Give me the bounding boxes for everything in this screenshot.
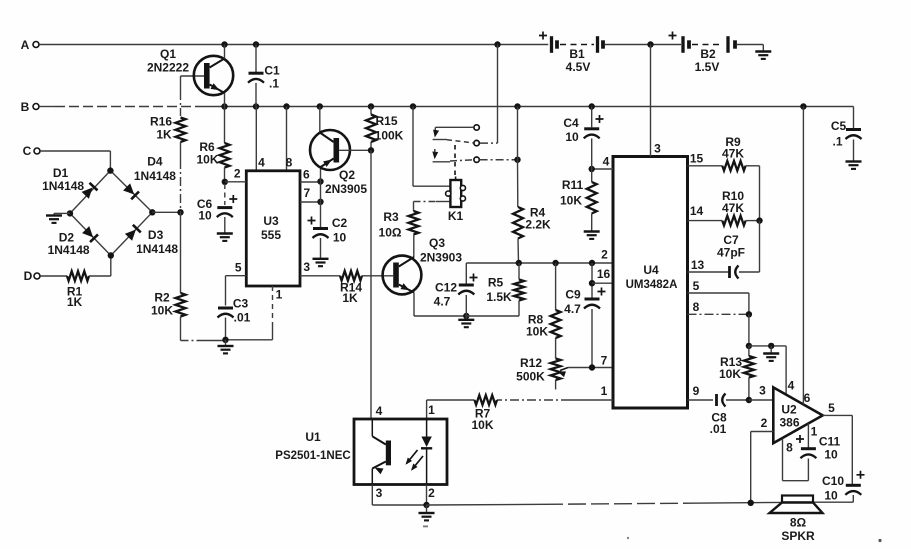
wire relay common to A-line <box>480 45 498 144</box>
svg-text:2: 2 <box>234 167 241 181</box>
wire relay arm 1 <box>433 127 474 137</box>
svg-text:3: 3 <box>303 260 310 274</box>
pin 4 label (U4) <box>603 155 610 169</box>
svg-text:C3: C3 <box>233 297 249 311</box>
transistor Q2 2N3905 <box>310 130 367 196</box>
svg-text:D4: D4 <box>147 155 163 169</box>
node pin7 junction <box>317 199 323 205</box>
pin 1 label (U4) <box>601 384 608 398</box>
pin 1 label (U2) <box>811 425 818 439</box>
node U4 pin16 junction <box>589 280 595 286</box>
ground (C2) <box>313 259 329 266</box>
capacitor C5 .1 <box>831 107 862 162</box>
node bridge top <box>107 167 113 173</box>
svg-text:7: 7 <box>601 354 608 368</box>
svg-text:.1: .1 <box>832 135 842 149</box>
wire U4 pin8 <box>688 313 749 315</box>
wire bridge bottom-left arm <box>70 213 111 255</box>
wire bridge top-right arm <box>110 171 152 213</box>
pin 3 label (U4) <box>654 142 661 156</box>
node R9/R10/C7 junction <box>756 217 762 223</box>
svg-text:14: 14 <box>690 204 704 218</box>
wire Q1 collector to A-line <box>224 45 226 59</box>
pin 2 label (U4) <box>601 248 608 262</box>
wire Q3 emitter down <box>414 293 466 317</box>
svg-text:1: 1 <box>428 403 435 417</box>
pin 3 label (U1) <box>376 486 383 500</box>
node relay contact 2 <box>474 140 479 145</box>
wire R7 to U1 pin1 <box>427 400 475 419</box>
svg-text:5: 5 <box>235 260 242 274</box>
node D (terminal) <box>24 269 40 283</box>
diode D4 1N4148 <box>123 155 177 200</box>
node C4/R11 junction <box>589 166 595 172</box>
pin 2 label (U1) <box>428 486 435 500</box>
wire R9 to corner <box>746 166 760 221</box>
svg-text:Q2: Q2 <box>339 168 355 182</box>
svg-text:D: D <box>24 269 33 283</box>
wire relay arm 1 throw <box>433 140 474 143</box>
svg-text:C: C <box>23 144 32 158</box>
svg-text:B: B <box>21 100 30 114</box>
wire C11 bottom loop <box>783 439 809 481</box>
resistor R11 10K <box>560 169 597 231</box>
wire U2 pin6 supply <box>802 107 804 405</box>
node 555 pin4 junction <box>253 103 259 109</box>
resistor R1 <box>67 271 89 309</box>
wire Q1 base <box>181 75 205 77</box>
svg-text:C4: C4 <box>563 116 579 130</box>
node R8 top junction <box>552 260 558 266</box>
svg-text:C1: C1 <box>264 64 280 78</box>
pin 15 label (U4) <box>690 152 704 166</box>
pin 14 label (U4) <box>690 204 704 218</box>
node bridge right <box>149 209 155 215</box>
svg-text:A: A <box>21 38 30 52</box>
svg-text:Q3: Q3 <box>429 236 445 250</box>
node Q2 junction <box>317 103 323 109</box>
capacitor C7 47pF <box>717 233 745 279</box>
ground (C3) <box>218 340 234 354</box>
svg-text:2N3903: 2N3903 <box>420 251 462 265</box>
svg-text:U3: U3 <box>263 214 279 228</box>
svg-text:13: 13 <box>691 258 705 272</box>
diode D1 1N4148 <box>42 166 97 199</box>
svg-text:10K: 10K <box>196 153 218 167</box>
pin 2 label (U2) <box>761 416 768 430</box>
wire R4 bottom <box>517 239 520 264</box>
wire R12 wiper <box>558 368 569 378</box>
svg-text:47K: 47K <box>722 201 744 215</box>
wire B-line <box>39 106 853 108</box>
wire B-line to K1 rail <box>413 107 450 187</box>
svg-text:C9: C9 <box>565 288 581 302</box>
svg-text:1K: 1K <box>67 295 83 309</box>
node R13 top junction <box>746 343 752 349</box>
node R4 rail junction <box>514 103 520 109</box>
svg-text:47K: 47K <box>722 147 744 161</box>
wire 555 pin8 rail <box>286 107 288 171</box>
wire ground bus <box>427 502 783 505</box>
ground (C6) <box>217 234 233 241</box>
wire R3-to-Q3 collector <box>413 235 415 258</box>
transistor Q3 2N3903 <box>383 236 463 294</box>
resistor R7 10K <box>471 395 497 432</box>
wire 555 pin1 <box>226 286 273 340</box>
svg-text:D1: D1 <box>53 166 69 180</box>
pin 5 label (U2) <box>828 401 835 415</box>
diode D3 1N4148 <box>125 225 179 256</box>
node battery junction (U4 pin3 supply) <box>647 41 653 47</box>
svg-text:10K: 10K <box>719 367 741 381</box>
svg-text:10K: 10K <box>560 194 582 208</box>
wire U4 pin14 <box>688 220 723 222</box>
wire R1-to-bridge <box>89 257 111 277</box>
capacitor C1 .1 <box>248 45 280 107</box>
resistor R3 10ohm <box>379 210 419 240</box>
svg-text:9: 9 <box>693 384 700 398</box>
svg-text:8: 8 <box>693 300 700 314</box>
ground (Q3/C12) <box>458 316 474 327</box>
svg-text:K1: K1 <box>448 209 464 223</box>
wire C-to-bridge <box>40 151 110 169</box>
svg-text:10: 10 <box>824 489 838 503</box>
node contact3/R4 junction <box>514 157 520 163</box>
wire ground link (U2 pin4) <box>749 345 786 347</box>
resistor R9 47K <box>722 135 746 171</box>
ground (C5) <box>846 162 862 169</box>
capacitor C4 10 <box>563 107 603 170</box>
wire U4 pin4 <box>592 168 613 170</box>
opto light arrows <box>406 450 424 471</box>
svg-text:10: 10 <box>565 130 579 144</box>
svg-text:1N4148: 1N4148 <box>42 179 84 193</box>
wire Q2 collector to B-line <box>319 107 321 133</box>
pin 7 label (U4) <box>601 354 608 368</box>
svg-text:1: 1 <box>811 425 818 439</box>
pin 16 label (U4) <box>597 267 611 281</box>
node A (terminal) <box>21 38 39 52</box>
resistor R16 <box>150 115 186 143</box>
svg-text:8: 8 <box>786 441 793 455</box>
diode D2 1N4148 <box>48 226 98 257</box>
wire B1-to-B2 <box>605 44 681 46</box>
wire 555 pin4 rail <box>255 107 257 171</box>
svg-text:R3: R3 <box>383 210 399 224</box>
svg-text:4: 4 <box>603 155 610 169</box>
svg-text:PS2501-1NEC: PS2501-1NEC <box>275 450 350 462</box>
svg-text:D3: D3 <box>148 228 164 242</box>
battery B2 <box>669 32 736 75</box>
resistor R14 1K <box>340 271 362 305</box>
svg-text:SPKR: SPKR <box>781 529 815 543</box>
svg-text:C2: C2 <box>332 216 348 230</box>
svg-text:1.5V: 1.5V <box>695 60 720 74</box>
capacitor C10 10 <box>822 471 865 503</box>
node R15 top junction <box>368 103 374 109</box>
wire opto collector rail <box>370 150 372 419</box>
pin 4 label (U3) <box>258 156 265 170</box>
svg-text:2.2K: 2.2K <box>525 218 551 232</box>
svg-text:555: 555 <box>261 228 281 242</box>
wire to U2 pin3 <box>749 399 773 401</box>
wire U4 pin16 stub <box>592 282 613 284</box>
wire R15 bottom <box>370 142 372 150</box>
wire pin2-to-C6 <box>224 184 226 205</box>
wire R4 rail upper <box>517 107 519 208</box>
svg-text:2N3905: 2N3905 <box>325 182 367 196</box>
wire bridge-right to rail <box>152 211 180 213</box>
wire D-to-R1 <box>40 275 67 277</box>
svg-text:1K: 1K <box>156 128 172 142</box>
wire U4 pin1 line <box>497 399 613 401</box>
node pin6 junction <box>317 178 323 184</box>
resistor R2 <box>151 291 186 318</box>
svg-text:10: 10 <box>198 209 212 223</box>
node main ground junction <box>423 502 429 508</box>
wire R16-to-bridge-node <box>180 142 182 212</box>
svg-text:3: 3 <box>654 142 661 156</box>
wire emitter bus to R5 <box>466 315 519 317</box>
svg-text:1.5K: 1.5K <box>486 290 512 304</box>
op-amp U1 PS2501-1NEC (IC box) <box>275 419 447 485</box>
svg-text:R16: R16 <box>150 115 172 129</box>
node C4 junction <box>589 103 595 109</box>
node U2 ground junction <box>768 343 774 349</box>
node C12 ground junction <box>463 313 469 319</box>
wire pin2 stub <box>225 181 247 183</box>
resistor R4 2.2K <box>513 206 551 239</box>
svg-text:R15: R15 <box>375 114 397 128</box>
wire R15 top <box>370 107 372 115</box>
svg-text:C10: C10 <box>822 474 844 488</box>
svg-text:C11: C11 <box>819 435 841 449</box>
resistor R8 10K <box>526 263 561 339</box>
ground (bridge) <box>46 213 62 223</box>
svg-text:10: 10 <box>824 448 838 462</box>
speaker 8ohm SPKR <box>770 496 823 544</box>
svg-text:.1: .1 <box>269 77 279 91</box>
svg-text:10Ω: 10Ω <box>379 226 402 240</box>
node R13 bottom junction <box>746 397 752 403</box>
wire U4 pin13 <box>688 271 730 273</box>
capacitor C2 10 <box>308 216 348 245</box>
wire Q2 base to R15 node <box>339 149 371 151</box>
node Q1 collector junction <box>221 41 227 47</box>
node 555 pin2 <box>222 179 228 185</box>
pin 8 label (U3) <box>286 156 293 170</box>
svg-text:5: 5 <box>828 401 835 415</box>
op-amp U3 555 (IC box) <box>246 171 300 286</box>
svg-text:4: 4 <box>788 379 795 393</box>
capacitor C3 .01 <box>218 297 251 325</box>
node bridge bottom <box>108 252 114 258</box>
resistor R5 1.5K <box>486 263 524 316</box>
svg-text:1K: 1K <box>342 291 358 305</box>
svg-text:2: 2 <box>761 416 768 430</box>
wire B2-to-ground <box>737 45 763 52</box>
ground (U2 pin4) <box>763 346 779 361</box>
wire C3-to-node <box>225 318 227 340</box>
svg-text:1: 1 <box>601 384 608 398</box>
svg-text:2N2222: 2N2222 <box>147 61 189 75</box>
svg-text:U2: U2 <box>781 403 797 417</box>
node R15/Q2-base junction <box>368 147 374 153</box>
node C (terminal) <box>23 144 40 158</box>
pin 6 label (U2) <box>804 391 811 405</box>
svg-text:C5: C5 <box>831 119 847 133</box>
svg-text:100K: 100K <box>375 129 404 143</box>
svg-text:U4: U4 <box>643 263 659 277</box>
svg-text:U1: U1 <box>305 430 321 444</box>
wire relay arm 2 <box>432 149 474 162</box>
wire R10 to node <box>746 220 760 222</box>
wire Q1emitter-R6 rail <box>224 107 226 144</box>
svg-text:3: 3 <box>376 486 383 500</box>
svg-text:R2: R2 <box>154 291 170 305</box>
svg-text:500K: 500K <box>516 370 545 384</box>
svg-text:47pF: 47pF <box>717 246 745 260</box>
transistor Q1 2N2222 <box>147 47 233 95</box>
wire U4 pin7 line <box>568 367 613 369</box>
node relay common junction <box>494 41 500 47</box>
node relay-coil rail junction <box>410 103 416 109</box>
svg-text:10K: 10K <box>526 325 548 339</box>
wire U2 output pin5 <box>823 415 853 484</box>
wire Q2 emitter drop <box>320 168 322 202</box>
wire R6-to-pin2node <box>224 168 226 182</box>
svg-text:10K: 10K <box>471 418 493 432</box>
resistor R13 10K <box>719 346 754 400</box>
wire 555 pin5 <box>226 276 247 306</box>
capacitor C12 4.7 <box>434 263 478 316</box>
wire R2-to-ground-node <box>181 317 226 341</box>
svg-text:1N4148: 1N4148 <box>136 242 178 256</box>
svg-text:5: 5 <box>693 279 700 293</box>
svg-text:10K: 10K <box>151 304 173 318</box>
wire 555 pin7 <box>300 201 321 203</box>
svg-text:.01: .01 <box>710 422 727 436</box>
pin 2 label (U3) <box>234 167 241 181</box>
LED (U1 emitter diode) <box>421 419 432 485</box>
node C3/pin1 ground node <box>222 337 228 343</box>
pin 6 label (U3) <box>303 168 310 182</box>
node R4/R5 junction <box>516 260 522 266</box>
svg-text:6: 6 <box>804 391 811 405</box>
capacitor C11 10 <box>796 435 840 462</box>
node bridge left <box>67 210 73 216</box>
svg-text:2: 2 <box>601 248 608 262</box>
wire C8 to R13 node <box>726 399 749 401</box>
wire C10 bottom to speaker <box>814 495 854 502</box>
svg-text:UM3482A: UM3482A <box>626 279 678 291</box>
wire bridge top-left arm <box>70 171 110 214</box>
node C9 bottom junction <box>589 364 595 370</box>
op-amp U4 UM3482A (IC box) <box>613 157 688 409</box>
wire U1 pin2 drop <box>426 485 428 506</box>
svg-text:386: 386 <box>779 416 799 430</box>
node relay contact 3 <box>474 157 479 162</box>
node U2-pin2 bus junction <box>748 500 754 506</box>
pin 5 label (U4) <box>693 279 700 293</box>
pin 8 label (U4) <box>693 300 700 314</box>
pin 1 label (U3) <box>276 287 283 301</box>
wire pin8 node to R13 <box>748 314 750 346</box>
wire bridge-left ground stub <box>54 212 70 214</box>
pin 5 label (U3) <box>235 260 242 274</box>
wire 555 pin3 to R14 <box>300 275 340 277</box>
svg-text:3: 3 <box>759 384 766 398</box>
relay K1 coil <box>446 177 466 224</box>
transistor (U1 photo-transistor) <box>372 419 391 485</box>
wire bridge-node-to-R2 <box>180 212 182 293</box>
wire C2-to-ground <box>320 238 322 259</box>
node pin5/pin8 junction <box>746 311 752 317</box>
svg-text:15: 15 <box>690 152 704 166</box>
svg-text:R5: R5 <box>488 276 504 290</box>
wire bridge bottom-right arm <box>111 212 153 255</box>
node U2 supply junction <box>800 103 806 109</box>
wire Q1 base rail upper <box>180 76 182 118</box>
pin 4 label (U2) <box>788 379 795 393</box>
wire pin7-to-C2 <box>320 202 322 227</box>
wire U4 pin15 <box>688 165 723 167</box>
wire U4 pin2 line <box>466 262 613 264</box>
node C1 top junction <box>253 41 259 47</box>
node bridge output junction <box>177 209 183 215</box>
wire C6-to-ground <box>224 217 226 234</box>
svg-text:C12: C12 <box>435 281 457 295</box>
svg-text:R11: R11 <box>562 178 584 192</box>
wire R14 to Q3 base <box>362 275 393 277</box>
svg-text:16: 16 <box>597 267 611 281</box>
svg-text:1N4148: 1N4148 <box>134 169 176 183</box>
wire relay contact3 to R4 rail <box>480 159 518 161</box>
svg-text:1N4148: 1N4148 <box>48 243 90 257</box>
wire U4 pin3 supply <box>650 45 652 157</box>
resistor R6 <box>196 140 229 168</box>
ground (U1) <box>419 505 435 520</box>
svg-text:6: 6 <box>303 168 310 182</box>
resistor R15 <box>366 114 404 143</box>
resistor R10 47K <box>722 189 746 225</box>
wire A-line <box>39 44 548 46</box>
pin 8 label (U2) <box>786 441 793 455</box>
node Q1 emitter junction <box>221 103 227 109</box>
pin 3 label (U3) <box>303 260 310 274</box>
pin 7 label (U3) <box>303 186 310 200</box>
pin 3 label (U2) <box>759 384 766 398</box>
wire K1 lower pin to R3 <box>414 202 451 212</box>
svg-text:1: 1 <box>276 287 283 301</box>
node C9 top junction <box>589 260 595 266</box>
svg-text:8: 8 <box>286 156 293 170</box>
svg-text:8Ω: 8Ω <box>790 516 807 530</box>
svg-text:7: 7 <box>303 186 310 200</box>
wire U1 pin3 to ground node <box>372 485 426 506</box>
wire U2 pin2 <box>751 432 774 504</box>
wire R8-R12 link <box>555 338 557 359</box>
node 555 pin8 junction <box>283 103 289 109</box>
battery B1 <box>539 32 603 75</box>
svg-text:4: 4 <box>258 156 265 170</box>
wire speck marks <box>423 526 882 543</box>
wire U4 pin5 <box>688 293 749 314</box>
op-amp U2 386 (triangle) <box>773 387 822 443</box>
wire 555 pin6 <box>300 181 321 183</box>
svg-text:B1: B1 <box>569 47 585 61</box>
capacitor C6 10 <box>197 195 237 223</box>
